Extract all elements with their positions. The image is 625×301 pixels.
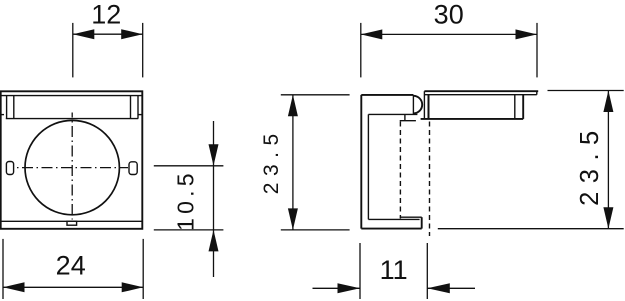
dim 11 extension line right (426, 243, 428, 299)
dim 30 extension line right (536, 23, 538, 78)
cap skirt bottom (421, 118, 524, 120)
dim 24 arrow right (122, 282, 144, 292)
right latch (129, 162, 137, 175)
dim 30 arrow right (516, 29, 538, 39)
svg-text:30: 30 (434, 0, 464, 29)
top arm end chord (412, 95, 414, 115)
top arm rounded nose (413, 96, 422, 114)
svg-text:23.5: 23.5 (260, 127, 283, 194)
horizontal centre line (17, 167, 128, 169)
front bezel top inner line (1, 95, 143, 97)
svg-text:24: 24 (56, 250, 86, 280)
base lip inner top (368, 218, 419, 220)
cap top inner line (424, 94, 536, 96)
front view outer body outline (1, 91, 143, 229)
cap top line (424, 90, 538, 92)
dim 23.5R arrow top (603, 91, 613, 113)
dim 23.5R extension line top (548, 90, 624, 92)
side view top arm outer (361, 94, 413, 96)
dim 11 arrow left (outside, pointing right) (338, 283, 361, 293)
svg-text:23.5: 23.5 (576, 122, 604, 206)
dim 23.5R extension line bottom (438, 228, 624, 230)
cap skirt right outer wall (522, 95, 524, 119)
dim 10.5 arrow top (outside, pointing down) (209, 144, 219, 166)
svg-text:12: 12 (91, 0, 121, 29)
dim 24 line (3, 286, 143, 288)
dim 30 extension line left (360, 23, 362, 78)
right edge step tick (138, 114, 142, 116)
cap right end (536, 91, 538, 95)
dim 12 extension line right (142, 23, 144, 78)
dim 12 arrow right (121, 29, 143, 39)
dim 23.5L line (292, 95, 294, 230)
cap left end (423, 91, 425, 119)
bottom centre tab (67, 221, 77, 225)
plunger step vertical (404, 114, 406, 120)
dim 12 arrow left (73, 29, 95, 39)
dim 11 line right tail (427, 287, 475, 289)
front bezel skirt bottom line (6, 118, 138, 120)
left slot vertical 1 (6, 96, 8, 119)
dim 23.5L extension line top (281, 94, 350, 96)
right slot vertical 2 (137, 96, 139, 119)
hidden plunger line left (399, 122, 401, 219)
dim 23.5L arrow top (288, 95, 298, 117)
vertical centre line (71, 113, 73, 220)
svg-text:11: 11 (380, 255, 408, 285)
dim 23.5R arrow bottom (603, 207, 613, 229)
dim 12 extension line left (72, 23, 74, 78)
side view top arm inner (368, 113, 417, 115)
dim 11 arrow right (outside, pointing left) (427, 283, 450, 293)
dim 30 line (361, 33, 537, 35)
cap skirt left wall (428, 95, 430, 119)
dim 23.5R line (607, 91, 609, 229)
left edge step tick (0, 114, 4, 116)
svg-text:10.5: 10.5 (173, 169, 199, 231)
hidden plunger line right (429, 122, 431, 237)
base boss top (400, 216, 422, 218)
base outer bottom (361, 228, 421, 230)
dim 10.5 line (213, 121, 215, 277)
plunger step horizontal (400, 120, 416, 122)
dim 24 extension line left (2, 239, 4, 299)
side view left outer wall (360, 95, 362, 229)
cap skirt right inner wall (514, 95, 516, 119)
front base inner line (1, 220, 143, 222)
dim 23.5L extension line bottom (281, 229, 350, 231)
dim 10.5 extension line bottom (154, 229, 224, 231)
dim 24 extension line right (142, 239, 144, 299)
base lip end vertical (421, 217, 423, 228)
dim 11 line left tail (313, 287, 361, 289)
dim 30 arrow left (361, 29, 383, 39)
side view left inner wall (367, 114, 369, 219)
dim 10.5 extension line top (centre line extension) (154, 165, 224, 167)
dim 12 line (73, 33, 143, 35)
dim 23.5L arrow bottom (288, 208, 298, 230)
dim 10.5 arrow bottom (outside, pointing up) (209, 230, 219, 252)
round button face (25, 120, 119, 214)
left slot vertical 2 (13, 96, 15, 119)
right slot vertical 1 (130, 96, 132, 119)
dim 24 arrow left (3, 282, 25, 292)
left latch (6, 162, 13, 175)
dim 11 extension line left (359, 243, 361, 299)
